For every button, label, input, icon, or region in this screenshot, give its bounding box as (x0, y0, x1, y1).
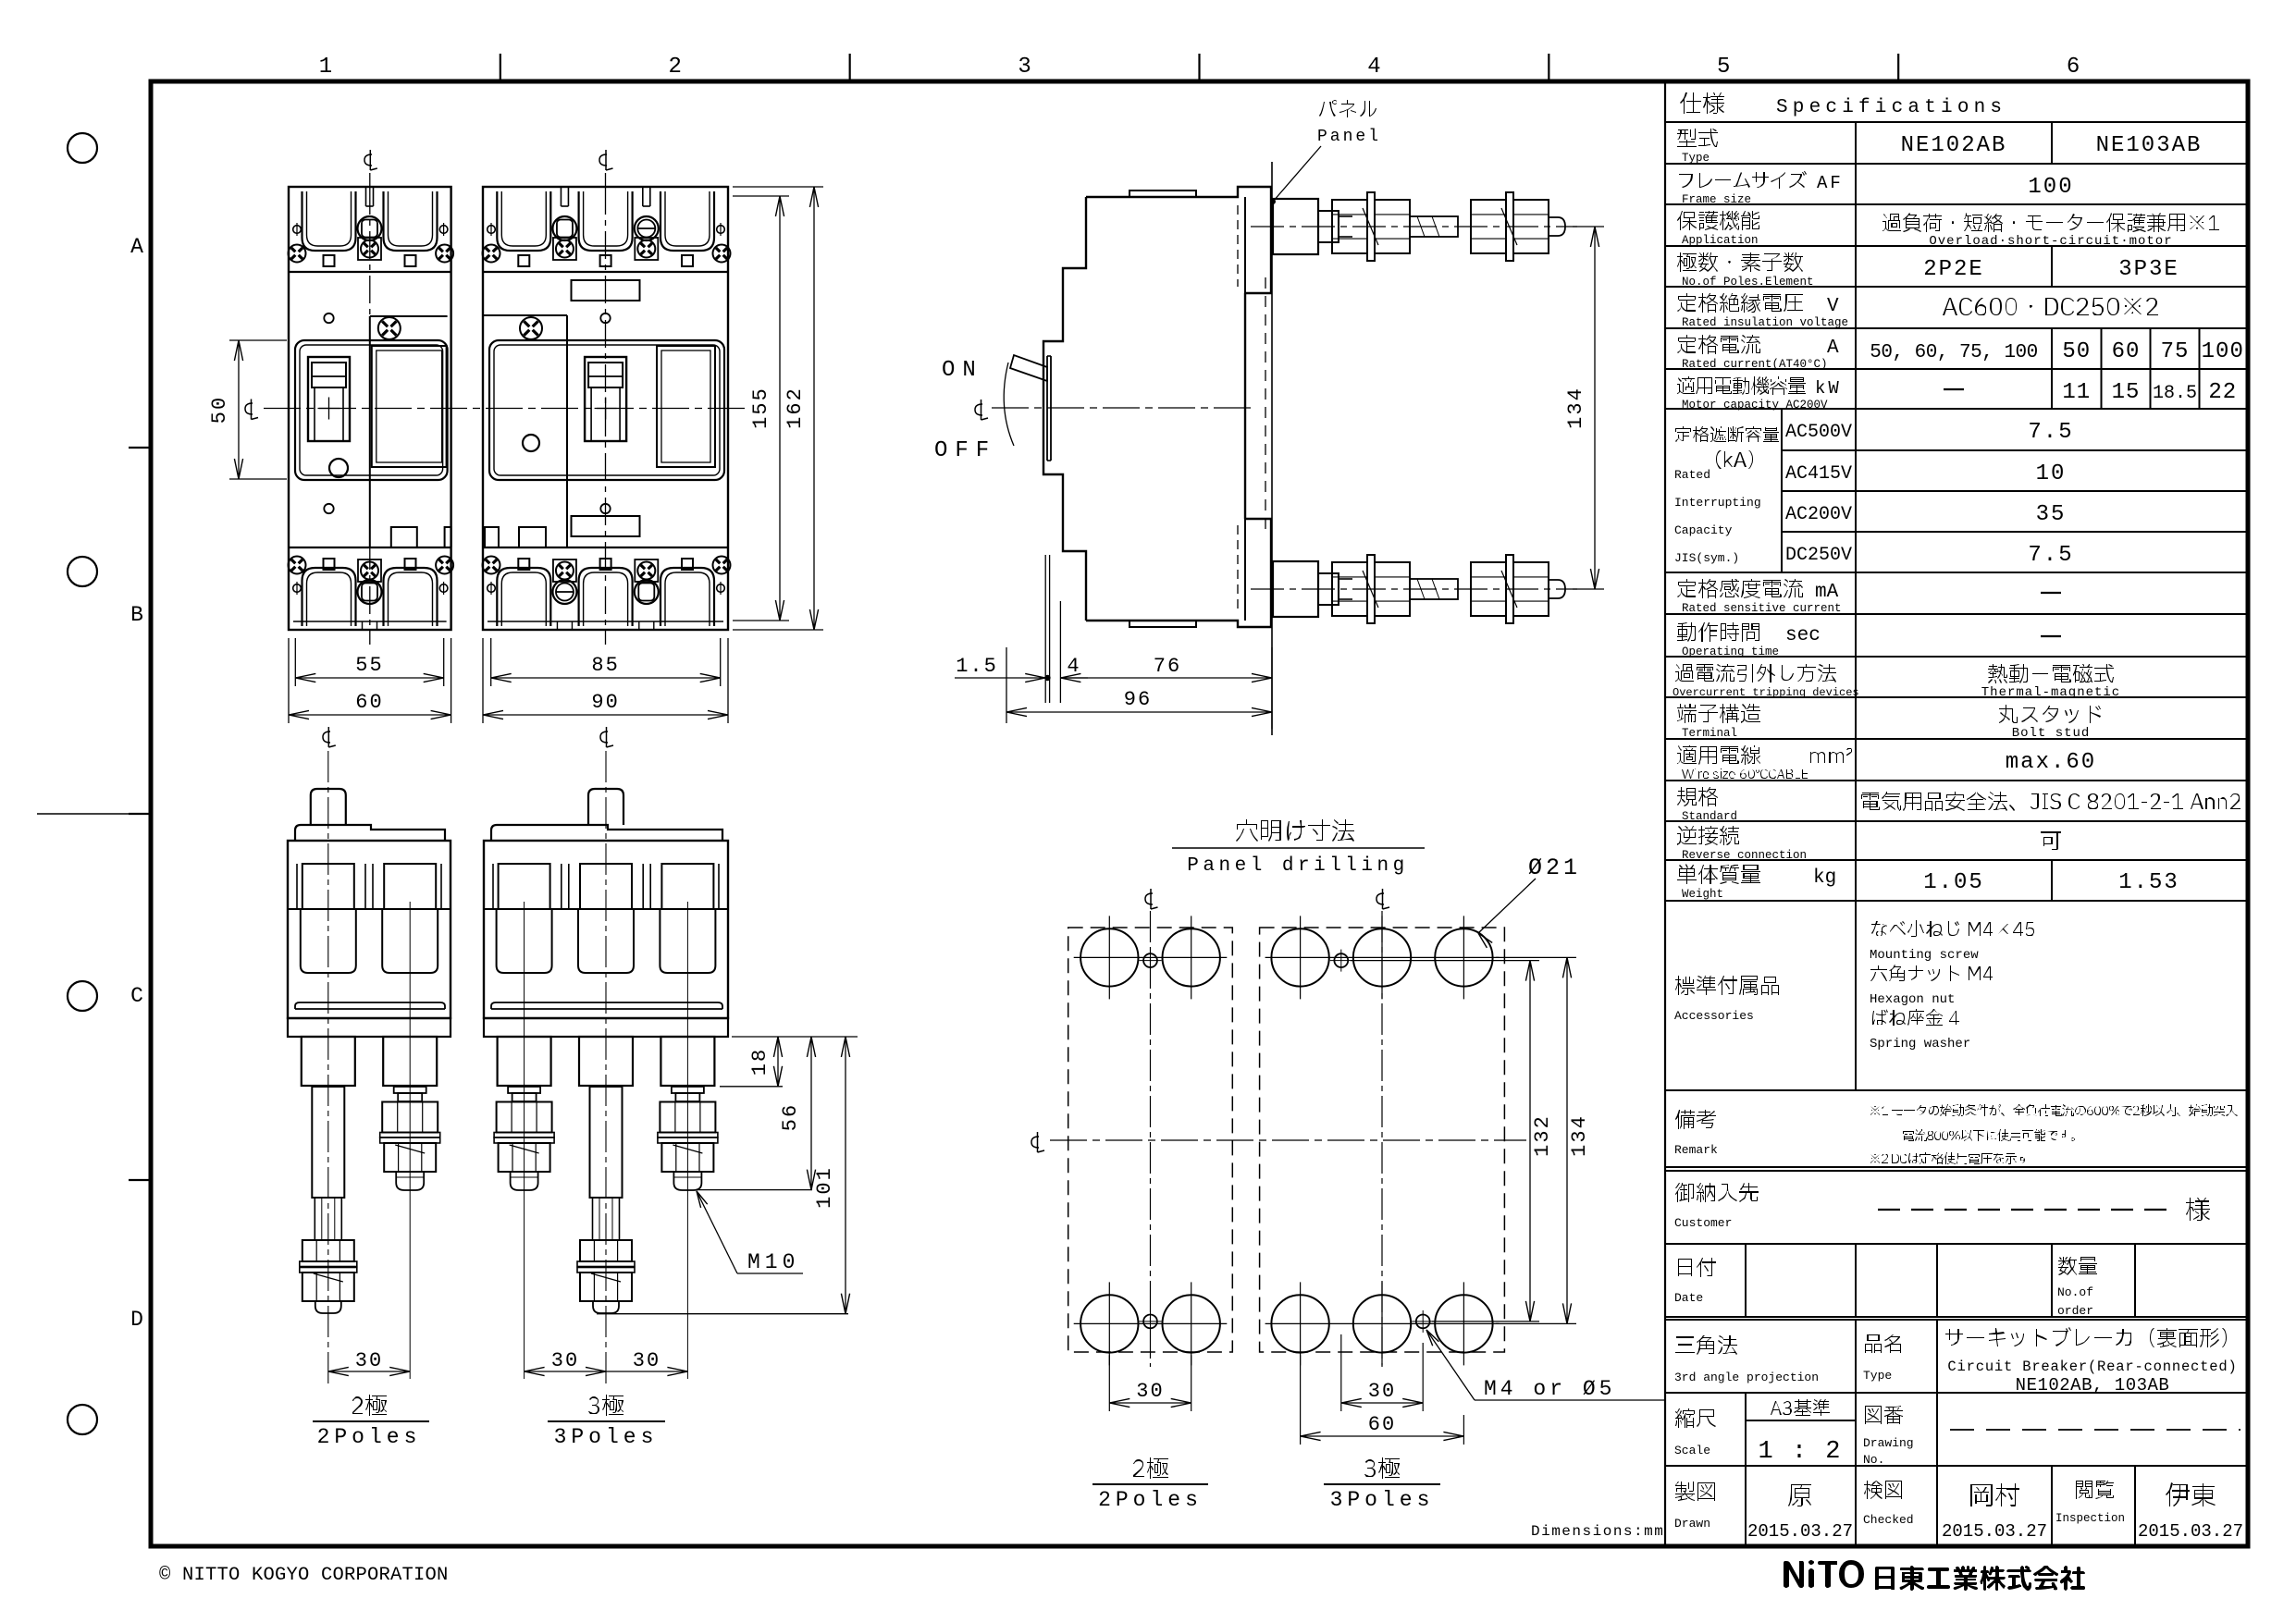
svg-text:Drawing: Drawing (1863, 1436, 1914, 1450)
svg-text:3Poles: 3Poles (1330, 1488, 1435, 1512)
svg-text:JIS(sym.): JIS(sym.) (1674, 551, 1739, 565)
front view 3P: bottom terminal screw assemblies (553, 559, 576, 582)
side view upper terminal stud: threaded shaft (1410, 216, 1458, 237)
table row group: 定格遮断容量 (kA) Rated Interrupting Capacity (1675, 426, 1779, 442)
side view: handle travel arc (1004, 363, 1014, 446)
side view: bottom tab (1129, 621, 1196, 627)
svg-text:B: B (130, 603, 143, 627)
svg-text:22: 22 (2208, 380, 2237, 405)
svg-text:Frame size: Frame size (1682, 193, 1751, 206)
drilling pattern 2P: hole row horizontal lines (1074, 956, 1228, 958)
svg-text:OFF: OFF (934, 438, 996, 463)
title block: 製図 Drawn / 検図 Checked / 閲覧 Inspection with names and dates (1675, 1482, 1715, 1501)
svg-text:No.of Poles.Element: No.of Poles.Element (1682, 276, 1814, 289)
spec table outer left edge (1664, 81, 1666, 1546)
table row: 型式 Type / NE102AB NE103AB (1677, 129, 1718, 147)
front view 2P: switch recess window (295, 340, 448, 480)
table row: 端子構造 Terminal (1677, 704, 1760, 723)
rear views: dimension 56 (697, 1189, 812, 1191)
table row: 適用電線 mm2 Wire size (1677, 745, 1760, 765)
dimension 50 (left of 2P view) (229, 339, 287, 341)
table row: 保護機能 Application (1677, 211, 1759, 230)
svg-text:5: 5 (1717, 55, 1730, 80)
rear view 3P: pole centerline x=566.6 (524, 902, 525, 1379)
rear view 2P: base plate (288, 1018, 451, 1037)
rear views: pole labels 2極 2Poles (352, 1395, 387, 1416)
front view 2P: reset button (329, 459, 348, 477)
side view upper terminal stud: inner nut pair (1332, 200, 1367, 253)
svg-text:Interrupting: Interrupting (1674, 496, 1761, 510)
svg-text:NE102AB: NE102AB (1901, 133, 2007, 158)
svg-text:1.53: 1.53 (2118, 870, 2179, 895)
svg-text:kg: kg (1813, 867, 1836, 889)
svg-text:2015.03.27: 2015.03.27 (1942, 1521, 2047, 1542)
rear view 3P: case body (484, 841, 728, 1018)
title block: 三角法 3rd angle projection / 品名 Type (1675, 1335, 1737, 1355)
svg-text:Operating time: Operating time (1682, 646, 1779, 658)
front view 3P: handle center cross (595, 408, 617, 410)
table row: 過電流引外し方法 (1675, 664, 1836, 682)
front view 2P: vertical centerline (369, 173, 371, 187)
table row: 定格感度電流 mA (1677, 579, 1803, 598)
svg-text:AC200V: AC200V (1785, 504, 1852, 525)
drilling views: horizontal centerline (1050, 1139, 1526, 1141)
rear view 2P: stud at pole x=443.2 (short) (394, 1087, 426, 1093)
svg-text:18.5: 18.5 (2153, 383, 2197, 404)
front view 2P: corner mounting screws (289, 245, 306, 263)
dimension 96 (overall depth) (1006, 711, 1272, 713)
spec table horizontal rules (1665, 121, 2246, 123)
svg-text:A: A (1827, 338, 1839, 359)
title block: 縮尺 Scale A3基準 1:2 / 図番 Drawing No. (1675, 1408, 1716, 1428)
svg-text:30: 30 (1368, 1380, 1396, 1403)
dimension 60 under 2P view (288, 638, 290, 723)
svg-text:Terminal: Terminal (1682, 727, 1737, 740)
dimension 134 right of side view (1573, 226, 1604, 227)
front view 2P: rating label window (372, 346, 447, 467)
front view 3P: rating label window (657, 346, 715, 467)
drilling: dimension 30 (2P) (1108, 1355, 1110, 1411)
svg-text:order: order (2057, 1304, 2093, 1318)
dimension 155 right of 3P view (733, 195, 789, 197)
dimension 55 under 2P view (294, 638, 296, 686)
svg-text:M10: M10 (747, 1250, 799, 1274)
svg-text:Hexagon nut: Hexagon nut (1870, 992, 1955, 1007)
front view 3P: cover tabs (485, 527, 499, 547)
table row: 御納入先 Customer (1675, 1183, 1759, 1202)
svg-text:2P2E: 2P2E (1923, 257, 1984, 282)
front view 3P: reset button (523, 435, 539, 451)
svg-text:3P3E: 3P3E (2118, 257, 2179, 282)
drilling pattern 3P: hole row horizontal lines (1265, 956, 1500, 958)
front view 3P: toggle handle (585, 357, 626, 441)
rear view 2P: pole centerline x=443.2 (409, 902, 411, 1379)
svg-text:100: 100 (2028, 175, 2073, 200)
drilling pattern 3P: breaker outline (dashed) (1260, 928, 1505, 1352)
svg-text:V: V (1827, 296, 1839, 317)
rear view 3P: top cap (491, 825, 722, 841)
svg-text:Rated insulation voltage: Rated insulation voltage (1682, 316, 1848, 329)
table row: 極数・素子数 No.of Poles.Element (1677, 252, 1803, 272)
svg-text:7.5: 7.5 (2028, 420, 2073, 445)
drilling pattern 3P: vertical centerline (1381, 911, 1383, 1367)
svg-text:Rated current(AT40°C): Rated current(AT40°C) (1682, 358, 1828, 371)
dimension 1.5 (handle plate) (955, 677, 1045, 679)
front view 3P: centerline symbol (599, 154, 607, 166)
table row: 日付 Date / 数量 No.of order (1678, 1258, 1716, 1277)
svg-text:4: 4 (1367, 55, 1380, 80)
svg-text:1.05: 1.05 (1923, 870, 1984, 895)
svg-text:76: 76 (1154, 655, 1181, 678)
front view 2P: cover tabs (391, 527, 417, 547)
dimension 76 (case depth) (1060, 677, 1272, 679)
svg-text:max.60: max.60 (2006, 750, 2096, 775)
front view 2P: cover screw (378, 317, 401, 339)
svg-text:50: 50 (2062, 339, 2091, 364)
drawing-no dashed placeholder (1950, 1429, 2240, 1431)
svg-text:90: 90 (591, 691, 619, 714)
rear view 3P: pole centerline x=743.4 (686, 902, 688, 1379)
drilling: M4 or Ø5 label with leader (1426, 1330, 1475, 1400)
side view: horizontal centerline (992, 407, 1251, 409)
front view 3P: vertical centerline (605, 173, 607, 187)
svg-text:Mounting screw: Mounting screw (1870, 948, 1979, 963)
svg-text:30: 30 (355, 1349, 383, 1372)
dimension 4 (plate standoff) (1060, 677, 1088, 679)
rear views: M10 leader and label (697, 1191, 737, 1273)
table row: 単体質量 kg Weight (1677, 864, 1760, 884)
svg-text:30: 30 (1136, 1380, 1164, 1403)
svg-text:2015.03.27: 2015.03.27 (1747, 1521, 1853, 1542)
side view lower terminal stud: centerline (1251, 588, 1577, 590)
drilling pattern 2P: vertical centerline (1150, 911, 1152, 1367)
drilling: dimension 134 (1496, 956, 1576, 958)
svg-text:Inspection: Inspection (2055, 1512, 2125, 1525)
scale cell split A3基準 / 1:2 (1746, 1420, 1856, 1421)
svg-text:Type: Type (1682, 152, 1710, 165)
svg-text:Checked: Checked (1863, 1513, 1914, 1527)
svg-text:A: A (130, 235, 143, 259)
svg-text:30: 30 (633, 1349, 660, 1372)
front view 3P: slot notches at top (560, 187, 562, 206)
front view 3P: top terminal cups (497, 191, 550, 251)
svg-text:sec: sec (1785, 625, 1821, 646)
svg-text:No.: No. (1863, 1453, 1884, 1467)
punch holes left margin (68, 133, 97, 163)
rear view 3P: stud at pole x=566.6 (short) (508, 1087, 540, 1093)
NITO company logo 日東工業株式会社 (1784, 1560, 1864, 1588)
front view 2P: accessory cover edge (370, 315, 448, 317)
drilling: dimension 30 (3P) (1340, 1334, 1342, 1411)
rear view 2P: stud at pole x=354.8 (long M10) (312, 1087, 344, 1198)
svg-text:35: 35 (2036, 502, 2067, 527)
drilling pattern 2P: breaker outline (dashed) (1068, 928, 1233, 1352)
front view 3P: square vents (518, 255, 529, 266)
svg-text:Remark: Remark (1674, 1143, 1718, 1157)
rear view 3P: upper pole windows (499, 864, 550, 909)
front view 3P: bottom terminal cups (497, 568, 550, 626)
side view: escutcheon face lines (1043, 340, 1063, 342)
rear view 3P: base plate (484, 1018, 728, 1037)
svg-text:1: 1 (319, 55, 332, 80)
spec table vertical rules (1855, 122, 1857, 1090)
rear views: dimension 18 (732, 1036, 858, 1038)
svg-text:101: 101 (813, 1166, 836, 1209)
side view lower terminal stud: collar (1318, 573, 1339, 605)
svg-text:2Poles: 2Poles (317, 1425, 422, 1449)
drilling: pole labels 2極 2Poles (1133, 1457, 1168, 1479)
drilling: dimension 132 (1351, 960, 1539, 962)
panel drilling title 穴明け寸法 / Panel drilling (1236, 819, 1354, 842)
side view lower terminal stud: outer nut pair (1471, 562, 1506, 616)
svg-text:Ø21: Ø21 (1528, 855, 1581, 881)
side view upper terminal stud: outer nut pair (1471, 200, 1506, 253)
dimension 162 right of 3P view (733, 186, 823, 188)
side view lower terminal stud: tip (1549, 580, 1565, 598)
front view 2P: bottom terminal cups (302, 568, 356, 626)
svg-text:Reverse connection: Reverse connection (1682, 849, 1807, 862)
rear view 2P: pole centerline x=354.8 (327, 751, 329, 1387)
table row: 備考 Remark (1675, 1110, 1716, 1129)
front view 2P: centerline symbol (364, 154, 372, 166)
table row: 動作時間 sec (1677, 622, 1759, 642)
table row: 定格絶縁電圧 V Rated insulation voltage (1677, 293, 1803, 313)
front view 3P: side pilot holes (488, 226, 496, 234)
svg-text:No.of: No.of (2057, 1285, 2093, 1299)
table row: フレームサイズ AF / 100 (1679, 171, 1807, 189)
side view: inner right edge line (1244, 197, 1246, 621)
rear view 2P: stud insulator bosses (302, 1037, 355, 1086)
panel line (1271, 162, 1273, 735)
front view 3P: corner mounting screws (483, 245, 500, 263)
front view 2P: square vents (324, 255, 335, 266)
rear view 3P: switch shaft post (588, 789, 623, 825)
svg-text:Standard: Standard (1682, 810, 1737, 823)
front view 2P: handle center cross (318, 408, 340, 410)
svg-text:AC500V: AC500V (1785, 422, 1852, 443)
table row: 逆接続 Reverse connection (1677, 826, 1739, 845)
svg-text:75: 75 (2161, 339, 2190, 364)
svg-text:AC415V: AC415V (1785, 463, 1852, 485)
drilling pattern 2P: centerline symbol (1145, 893, 1153, 904)
table row: 定格電流 A Rated current (1677, 335, 1760, 354)
side view lower terminal stud: threaded shaft (1410, 579, 1458, 599)
svg-text:DC250V: DC250V (1785, 545, 1852, 566)
svg-text:NE102AB, 103AB: NE102AB, 103AB (2016, 1375, 2170, 1396)
svg-text:11: 11 (2062, 380, 2091, 405)
rear view 2P: top cap (295, 825, 445, 841)
front view 2P: bottom terminal screw assemblies (358, 559, 381, 582)
side view: hidden edge near back (1237, 205, 1239, 287)
drilling: dimension 60 (3P) (1300, 1355, 1302, 1445)
rear view 3P: pole centerline x=655 (605, 751, 607, 1387)
rear view 3P: lower pole cups (497, 909, 552, 973)
svg-text:Overcurrent tripping devices: Overcurrent tripping devices (1673, 686, 1859, 699)
front view 3P: pole pilot circles (572, 280, 640, 301)
svg-text:AF: AF (1817, 173, 1844, 193)
front view 3P: body outline (483, 187, 728, 630)
svg-text:Capacity: Capacity (1674, 523, 1733, 537)
svg-text:Specifications: Specifications (1776, 97, 2006, 118)
table row: 仕様 Specifications (1680, 92, 1724, 114)
svg-text:155: 155 (749, 387, 772, 429)
svg-text:60: 60 (2112, 339, 2141, 364)
svg-text:132: 132 (1531, 1114, 1554, 1157)
side view lower terminal stud: inner nut pair (1332, 562, 1367, 616)
svg-text:Dimensions:mm: Dimensions:mm (1531, 1523, 1664, 1540)
svg-text:Circuit Breaker(Rear-connected: Circuit Breaker(Rear-connected) (1947, 1359, 2237, 1375)
side view: body outline (1043, 187, 1271, 627)
front view 3P: accessory cover edge (483, 314, 567, 316)
side view upper terminal stud: mounting block (1273, 199, 1318, 254)
svg-text:Weight: Weight (1682, 888, 1723, 901)
svg-text:Rated: Rated (1674, 468, 1710, 482)
svg-text:Accessories: Accessories (1674, 1009, 1754, 1023)
front views: horizontal centerline (264, 408, 746, 410)
front view 2P: side pilot holes (293, 226, 302, 234)
side view lower terminal stud: mounting block (1273, 561, 1318, 617)
svg-text:134: 134 (1564, 387, 1587, 429)
svg-text:50, 60, 75, 100: 50, 60, 75, 100 (1870, 342, 2038, 363)
front view 2P: slot notches at top (365, 187, 367, 206)
svg-text:2: 2 (669, 55, 682, 80)
front view 3P: switch recess window (489, 340, 724, 480)
svg-text:Drawn: Drawn (1674, 1517, 1710, 1531)
rear views: pole labels 3極 3Poles (588, 1395, 623, 1416)
svg-text:Overload·short-circuit·motor: Overload·short-circuit·motor (1929, 234, 2172, 249)
dimension 85 under 3P view (490, 638, 492, 686)
front view 2P: toggle handle (308, 357, 350, 441)
side view bottom dimensions: extension lines (1006, 647, 1007, 723)
svg-text:7.5: 7.5 (2028, 543, 2073, 568)
svg-text:162: 162 (784, 387, 807, 429)
front view 2P: pole pilot circles (324, 314, 333, 323)
svg-text:ON: ON (942, 358, 983, 383)
drilling pattern 2P: M4 pilot holes (1143, 953, 1157, 967)
svg-text:Customer: Customer (1674, 1216, 1732, 1230)
svg-text:10: 10 (2036, 461, 2067, 486)
side view upper terminal stud: collar (1318, 211, 1339, 242)
grid row ticks and letters A-D (129, 447, 151, 449)
dimension 90 under 3P view (482, 638, 484, 723)
drilling pattern 3P: mounting holes Ø21 (1271, 928, 1328, 986)
panel label パネル Panel with leader (1319, 100, 1376, 117)
svg-text:96: 96 (1124, 688, 1152, 711)
front view 2P: body outline (289, 187, 451, 630)
svg-text:NE103AB: NE103AB (2096, 133, 2203, 158)
svg-text:134: 134 (1568, 1114, 1591, 1157)
svg-text:Thermal-magnetic: Thermal-magnetic (1981, 685, 2120, 700)
rear view 2P: base ledge (295, 1002, 445, 1009)
side view upper terminal stud: centerline (1251, 226, 1577, 227)
drilling pattern 2P: mounting holes Ø21 (1080, 928, 1138, 986)
svg-text:50: 50 (208, 396, 231, 424)
svg-text:4: 4 (1067, 655, 1079, 678)
drilling pattern 3P: M4 pilot holes (1334, 953, 1348, 967)
rear view 3P: stud insulator bosses (498, 1037, 551, 1086)
svg-text:Scale: Scale (1674, 1444, 1710, 1457)
svg-text:2015.03.27: 2015.03.27 (2138, 1521, 2243, 1542)
side view: top tab (1129, 191, 1196, 197)
rear view 3P: upper band line (484, 908, 728, 910)
svg-text:30: 30 (551, 1349, 579, 1372)
rear view 2P: case body (288, 841, 451, 1018)
front view 3P: section divider lines (483, 271, 728, 273)
svg-text:3: 3 (1018, 55, 1031, 80)
front view 3P: top terminal screw assemblies (552, 216, 576, 240)
rear view 2P: lower pole cups (301, 909, 356, 973)
svg-text:18: 18 (748, 1048, 772, 1076)
rear view 3P: stud at pole x=743.4 (short) (672, 1087, 704, 1093)
svg-text:56: 56 (779, 1103, 802, 1131)
svg-text:Type: Type (1863, 1369, 1892, 1383)
svg-text:Panel: Panel (1317, 128, 1381, 146)
rear view 2P: switch shaft post (311, 789, 346, 825)
table row: 標準付属品 Accessories (1675, 976, 1779, 995)
svg-text:Application: Application (1682, 234, 1759, 247)
table row: 規格 Standard (1677, 787, 1718, 806)
svg-text:Rated sensitive current: Rated sensitive current (1682, 602, 1842, 615)
drilling pattern 3P: centerline symbol (1376, 893, 1384, 904)
rear view 3P: centerline symbol (600, 732, 608, 743)
svg-text:6: 6 (2067, 55, 2080, 80)
svg-text:3Poles: 3Poles (554, 1425, 659, 1449)
svg-text:85: 85 (591, 654, 619, 677)
side view: centerline symbol (975, 404, 982, 415)
svg-text:60: 60 (355, 691, 383, 714)
svg-text:55: 55 (355, 654, 383, 677)
svg-text:3rd angle projection: 3rd angle projection (1674, 1371, 1819, 1384)
sheet centre mark left (37, 813, 151, 815)
side view: toggle handle lever (1010, 355, 1047, 381)
front view 2P: top terminal cups (302, 191, 356, 251)
svg-text:kW: kW (1815, 378, 1842, 399)
svg-text:C: C (130, 984, 143, 1008)
svg-text:© NITTO KOGYO CORPORATION: © NITTO KOGYO CORPORATION (159, 1565, 449, 1586)
rear view 3P: base ledge (491, 1002, 722, 1009)
side view upper terminal stud: tip (1549, 217, 1565, 236)
svg-text:Date: Date (1674, 1291, 1703, 1305)
rear views: dimension 101 (597, 1313, 848, 1315)
svg-text:Spring washer: Spring washer (1870, 1037, 1970, 1051)
rear view 2P: upper pole windows (302, 864, 354, 909)
front view 2P: section divider lines (289, 271, 451, 273)
svg-text:1.5: 1.5 (956, 655, 998, 678)
rear view 2P: centerline symbol (323, 732, 330, 743)
front view 2P: top terminal screw assemblies (358, 216, 382, 240)
svg-text:Bolt stud: Bolt stud (2012, 726, 2091, 741)
rear view 3P: stud at pole x=655 (long M10) (590, 1087, 623, 1198)
svg-text:100: 100 (2202, 339, 2244, 364)
rear view 2P: upper band line (288, 908, 451, 910)
rear views: 30 dimensions (328, 1371, 410, 1372)
grid column ticks and numbers 1-6 (500, 54, 501, 81)
svg-text:D: D (130, 1308, 143, 1332)
svg-text:M4 or Ø5: M4 or Ø5 (1484, 1377, 1615, 1401)
svg-text:2Poles: 2Poles (1098, 1488, 1203, 1512)
svg-text:60: 60 (1368, 1413, 1396, 1436)
table row: 適用電動機容量 kW Motor capacity (1677, 376, 1806, 395)
drilling: pole labels 3極 3Poles (1364, 1457, 1400, 1479)
svg-text:Motor capacity AC200V: Motor capacity AC200V (1682, 399, 1828, 412)
svg-text:Panel drilling: Panel drilling (1187, 855, 1408, 877)
svg-text:15: 15 (2112, 380, 2141, 405)
front view 3P: cover screw (520, 317, 542, 339)
svg-text:1 : 2: 1 : 2 (1758, 1438, 1842, 1466)
svg-text:mA: mA (1815, 582, 1839, 603)
